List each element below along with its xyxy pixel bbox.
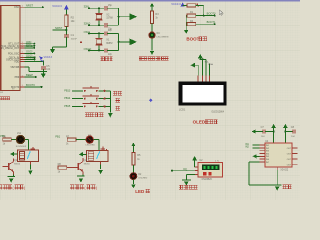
svg-text:PB1: PB1 xyxy=(55,135,60,138)
resistor R3 xyxy=(150,11,153,23)
buttons bus + ground xyxy=(109,91,111,113)
ground under C5 xyxy=(40,71,47,73)
svg-text:SDA: SDA xyxy=(208,63,213,66)
ground arrow under relay2 xyxy=(100,162,102,165)
MCU pin VDD wire to VCC node xyxy=(20,60,24,62)
label 晶振电路 xyxy=(101,57,104,61)
load capacitors xyxy=(104,31,106,35)
blue diamond marker xyxy=(149,98,153,102)
svg-text:LED: LED xyxy=(135,189,145,194)
svg-text:SOUNDER: SOUNDER xyxy=(16,146,27,148)
label 测温模块 xyxy=(179,185,183,190)
MCU U1 body xyxy=(1,6,20,91)
crystal xyxy=(98,33,100,38)
MCU pins right side xyxy=(20,6,24,8)
ground under Q2 xyxy=(82,175,84,177)
svg-text:LED-GREEN: LED-GREEN xyxy=(157,37,169,39)
svg-text:BOOT1: BOOT1 xyxy=(207,20,216,24)
wire to gnd rail xyxy=(65,37,67,47)
svg-text:DQ: DQ xyxy=(183,169,187,171)
svg-text:R2: R2 xyxy=(71,15,75,19)
OLED pin wires xyxy=(197,65,199,75)
LED D4 green xyxy=(149,32,155,38)
ground reset xyxy=(52,47,54,49)
rail xyxy=(185,16,187,30)
resistor R2b top xyxy=(187,4,196,7)
OLED pin stubs xyxy=(197,75,199,81)
ground under Q1 xyxy=(12,175,14,177)
svg-text:VCC3.3: VCC3.3 xyxy=(171,2,181,6)
svg-text:1: 1 xyxy=(22,46,23,48)
wire LED to relay2 xyxy=(94,139,99,141)
svg-text:VB/VDB: VB/VDB xyxy=(10,66,19,69)
svg-text:1: 1 xyxy=(22,85,23,87)
LED D1 red xyxy=(86,136,93,143)
ground run led xyxy=(150,51,154,55)
LED D2 red xyxy=(130,173,137,180)
svg-text:BOOT0: BOOT0 xyxy=(26,83,35,87)
resistor R2 xyxy=(65,15,68,27)
DS18B20 body U2 xyxy=(195,166,198,168)
power arrow OLED xyxy=(198,54,203,58)
svg-text:1: 1 xyxy=(22,58,23,60)
ground arrow under relay1 xyxy=(29,162,31,165)
svg-text:VCC3.3: VCC3.3 xyxy=(44,56,53,59)
svg-text:NRST: NRST xyxy=(55,26,63,30)
svg-text:VDD: VDD xyxy=(14,60,19,63)
svg-text:BEEP: BEEP xyxy=(26,73,33,77)
svg-text:OSCO: OSCO xyxy=(26,56,34,60)
ground DS18B20 xyxy=(182,179,191,181)
svg-text:1: 1 xyxy=(22,52,23,54)
svg-text:100nF: 100nF xyxy=(71,39,78,41)
DS18B20 wires xyxy=(195,166,199,168)
resistor R4 / BOOT1 xyxy=(185,23,188,25)
svg-text:PB14: PB14 xyxy=(64,97,71,100)
capacitor C5 xyxy=(41,66,46,68)
svg-text:S8050: S8050 xyxy=(84,164,91,166)
svg-text:OSCI: OSCI xyxy=(26,50,33,54)
power arrow run led xyxy=(150,3,154,7)
svg-text:): ) xyxy=(24,186,25,190)
relay RL1 xyxy=(18,150,39,161)
svg-text:PB13: PB13 xyxy=(64,89,71,92)
ground boot xyxy=(184,30,189,34)
right rail + terminal arrow xyxy=(118,8,120,25)
svg-text:1 %: 1 % xyxy=(215,160,219,162)
label 继电器(加热) xyxy=(70,185,74,190)
MCU pin VBAT wire xyxy=(20,66,24,68)
svg-text:LCD1: LCD1 xyxy=(179,109,186,112)
resistor R1 / BOOT0 xyxy=(185,15,188,17)
svg-text:OLED12864: OLED12864 xyxy=(211,111,224,113)
power arrow LED lamp xyxy=(131,143,135,147)
stray red mark xyxy=(80,41,82,43)
svg-text:): ) xyxy=(96,186,97,190)
relay RL2 xyxy=(87,150,108,161)
svg-text:OSC: OSC xyxy=(14,6,19,9)
svg-text:LS1: LS1 xyxy=(17,133,22,135)
svg-text:LED-RED: LED-RED xyxy=(86,145,96,147)
svg-text:PB15: PB15 xyxy=(64,105,71,108)
fan gnd routing xyxy=(249,161,260,163)
svg-text:OLED: OLED xyxy=(193,120,206,125)
svg-text:32768: 32768 xyxy=(106,18,113,20)
wire + node NRST xyxy=(65,26,67,34)
crystal xyxy=(98,8,100,13)
label 程序运行指示灯 xyxy=(139,56,143,60)
svg-text:8MHZ: 8MHZ xyxy=(106,43,113,45)
svg-text:NRST: NRST xyxy=(26,3,33,7)
ground LED lamp xyxy=(131,185,135,189)
background grid xyxy=(0,0,300,200)
left terminal arrow OLED xyxy=(191,63,195,68)
load capacitors xyxy=(104,6,106,10)
svg-text:32KO: 32KO xyxy=(26,44,33,48)
power arrow DS18B20 xyxy=(192,156,197,160)
label 主控芯片 (partially cut) xyxy=(0,97,2,101)
svg-text:S8050: S8050 xyxy=(14,164,21,166)
relay2 left terminal arrow xyxy=(79,152,83,156)
resistor R5 xyxy=(132,153,135,166)
svg-text:1: 1 xyxy=(22,75,23,77)
svg-text:LED-RED: LED-RED xyxy=(138,177,147,179)
mouse cursor xyxy=(219,10,223,16)
capacitor C1 xyxy=(64,34,69,36)
relay1 left terminal arrow xyxy=(10,152,14,156)
transistor Q1 xyxy=(8,163,10,170)
label 继电器(照明) xyxy=(0,185,3,190)
ground fan xyxy=(273,184,282,186)
fan left terminal arrow xyxy=(253,154,257,158)
power arrows fan xyxy=(271,124,276,128)
wire buzzer to relay xyxy=(25,139,29,141)
svg-text:PD0_OSC: PD0_OSC xyxy=(8,52,19,55)
svg-text:VCC3.3: VCC3.3 xyxy=(52,4,62,8)
svg-text:PB9: PB9 xyxy=(15,76,20,79)
buzzer LS1 xyxy=(16,135,24,143)
label 独立按键 xyxy=(85,112,89,117)
top window edge xyxy=(0,0,300,2)
svg-text:C1: C1 xyxy=(71,33,75,37)
svg-text:BOOT0: BOOT0 xyxy=(207,11,216,15)
svg-text:PC15_OSC32_OUT: PC15_OSC32_OUT xyxy=(0,47,20,50)
svg-text:XD-022: XD-022 xyxy=(280,170,289,172)
OLED display U3 xyxy=(179,82,227,106)
svg-text:BOOT: BOOT xyxy=(186,37,199,42)
right rail + terminal arrow xyxy=(118,33,120,50)
svg-text:1: 1 xyxy=(22,6,23,8)
label 风扇 xyxy=(282,184,286,189)
svg-text:DS18B20: DS18B20 xyxy=(202,178,213,181)
